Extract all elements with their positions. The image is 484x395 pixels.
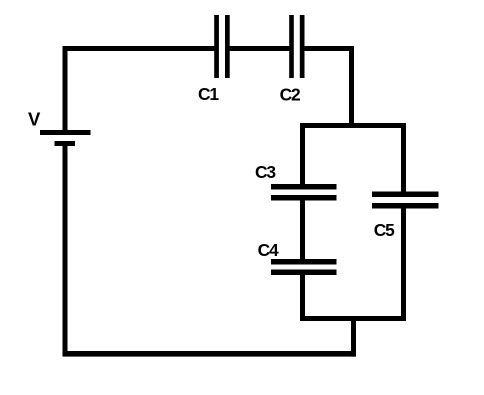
wire: bottom horizontal (63, 351, 357, 357)
svg-text:C1: C1 (198, 84, 219, 104)
node: box bottom rail (300, 316, 406, 321)
wire: right branch from C5 to box bottom (401, 205, 406, 321)
battery source V: short plate (55, 141, 76, 146)
wire: left branch from C4 to box bottom (300, 272, 305, 321)
wire: top horizontal from left corner to C1 (63, 46, 216, 51)
svg-text:V: V (28, 109, 41, 130)
svg-text:C5: C5 (374, 220, 395, 240)
wire: left branch between C3 and C4 (300, 198, 305, 261)
wire: left vertical from top-left corner down to battery (63, 46, 68, 132)
node: box top rail (300, 123, 406, 128)
battery source V: long plate (40, 130, 91, 135)
capacitor C5 (372, 192, 439, 209)
capacitor C2 (289, 15, 304, 78)
wire: top horizontal between C1 and C2 (230, 46, 290, 51)
wire: right branch from box top to C5 (401, 123, 406, 194)
wire: right vertical from top-right corner down to box top (349, 46, 354, 128)
capacitor C3 (271, 184, 337, 201)
wire: left vertical from battery down to bottom-left corner (63, 146, 68, 357)
capacitor C4 (271, 259, 337, 275)
capacitor C1 (214, 15, 230, 78)
svg-text:C4: C4 (258, 240, 279, 260)
wire: left branch from box top to C3 (300, 123, 305, 187)
wire: top horizontal from C2 to top-right corner (305, 46, 355, 51)
svg-text:C3: C3 (255, 162, 276, 182)
wire: vertical from box bottom down to bottom wire (351, 316, 356, 357)
svg-text:C2: C2 (280, 84, 300, 104)
